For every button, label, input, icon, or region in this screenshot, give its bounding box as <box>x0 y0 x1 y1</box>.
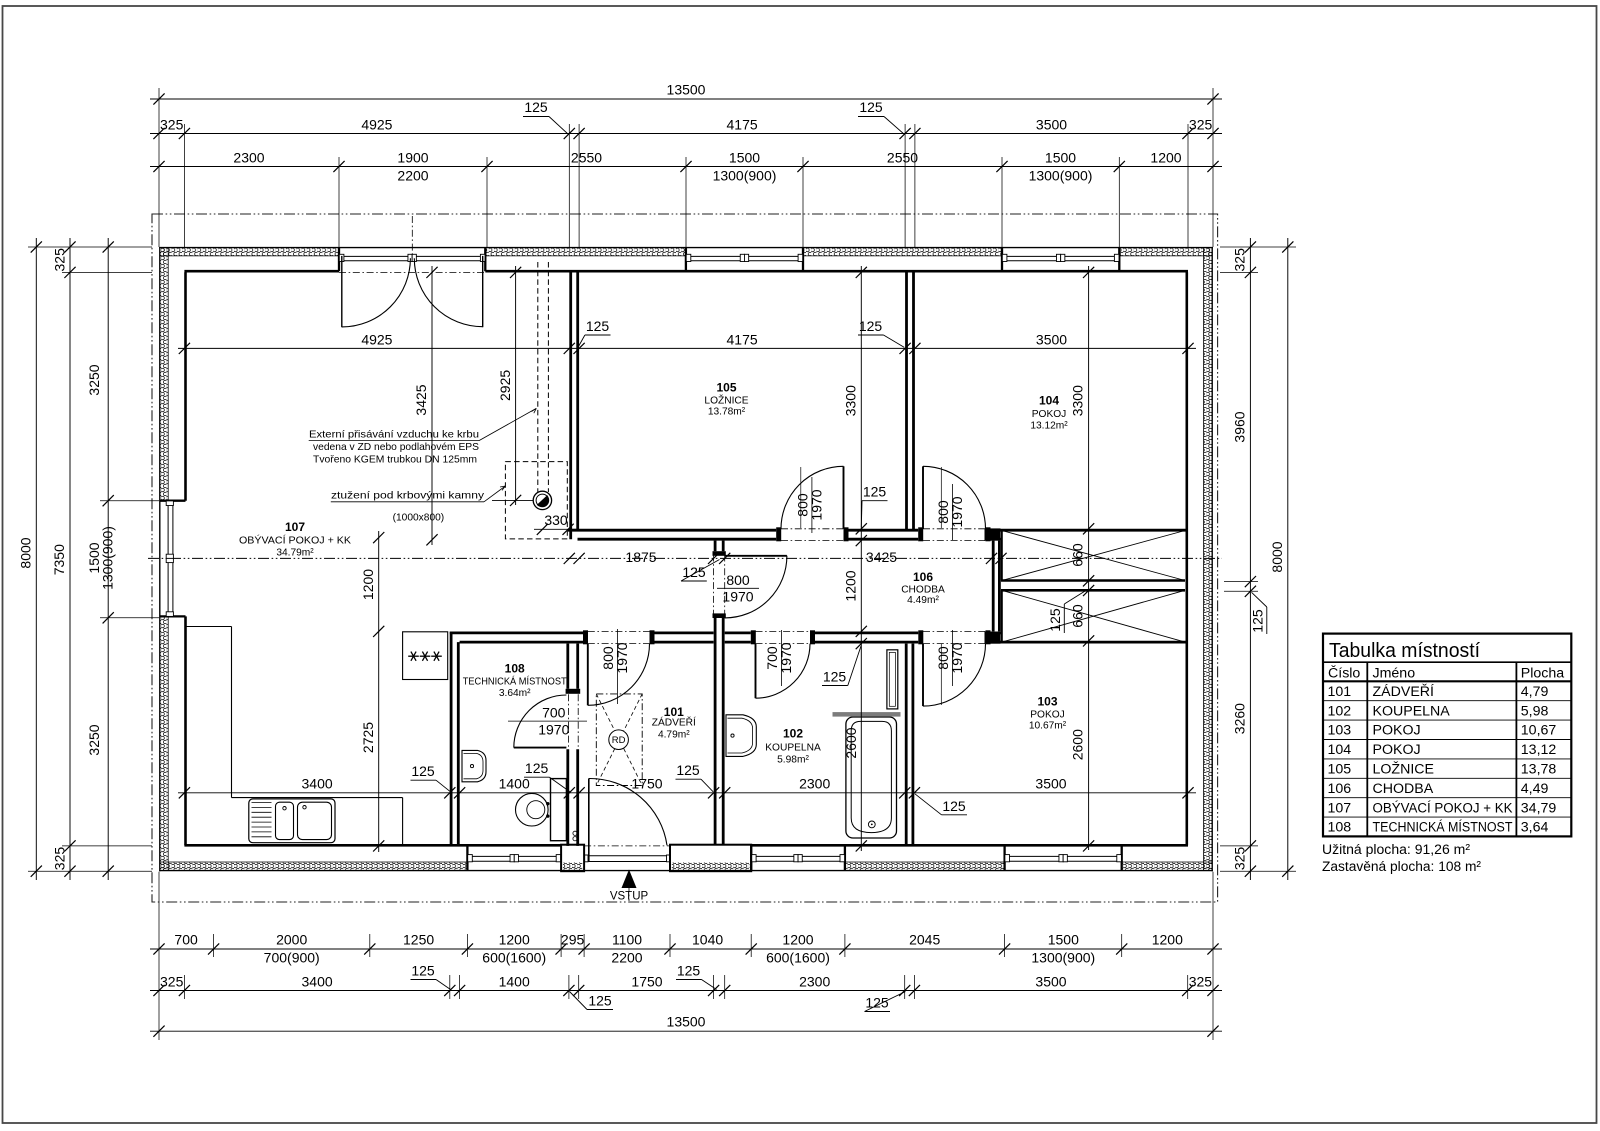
dimension interior 4925/125/4175/125/3500 <box>178 331 1196 354</box>
svg-text:108: 108 <box>505 662 525 676</box>
svg-text:1970: 1970 <box>778 642 794 673</box>
svg-text:1750: 1750 <box>631 776 662 792</box>
opening axis dashes door D105 <box>781 529 844 541</box>
svg-text:1970: 1970 <box>614 642 630 673</box>
window W4 room 102 bottom wall <box>752 855 845 862</box>
leader 125 axis <box>681 560 720 582</box>
svg-text:1400: 1400 <box>499 974 530 990</box>
svg-text:2725: 2725 <box>360 722 376 753</box>
door D105 <box>781 466 844 529</box>
dimension 3300 and 1200 and 2600 at x=861 <box>843 266 867 852</box>
svg-text:325: 325 <box>1231 847 1247 871</box>
svg-text:295: 295 <box>561 932 585 948</box>
svg-text:104: 104 <box>1039 394 1059 408</box>
wall stub between hall 101 and corridor 106 <box>715 541 723 552</box>
svg-text:1400: 1400 <box>499 776 530 792</box>
kitchen sink double bowl <box>249 799 335 843</box>
caps hall wall stub <box>713 551 726 618</box>
radiator bathroom <box>887 650 898 709</box>
wall: interior face bottom east part <box>751 844 1188 847</box>
annotation fireplace stiffening <box>331 486 506 524</box>
svg-text:1970: 1970 <box>722 589 753 605</box>
kitchen stove with hob asterisks <box>403 632 448 680</box>
svg-text:2925: 2925 <box>497 370 513 401</box>
svg-text:CHODBA: CHODBA <box>1373 781 1434 797</box>
room 108 label <box>463 662 567 700</box>
svg-text:106: 106 <box>1328 781 1352 797</box>
bathroom shelf gray bar <box>833 712 901 717</box>
svg-text:3300: 3300 <box>843 385 859 416</box>
wall between rooms 105/104 and corridor 106 <box>568 530 1188 539</box>
svg-text:104: 104 <box>1328 742 1352 758</box>
svg-text:2045: 2045 <box>909 932 940 948</box>
door D103 dims 800/1970 <box>935 630 965 705</box>
dimension left 325/7350/325 <box>51 238 76 880</box>
svg-text:102: 102 <box>783 727 803 741</box>
svg-text:Plocha: Plocha <box>1521 665 1564 681</box>
svg-text:POKOJ: POKOJ <box>1030 710 1065 721</box>
svg-text:1300(900): 1300(900) <box>99 526 115 590</box>
toilet WC room 108 <box>516 779 567 841</box>
wall hatch: top-mid segment <box>485 248 686 256</box>
svg-text:13,12: 13,12 <box>1521 742 1557 758</box>
svg-text:2300: 2300 <box>233 150 264 166</box>
wall: interior face bottom west part <box>184 844 561 847</box>
door D105 dims 800/1970 <box>795 467 825 533</box>
kitchen counter L-shape <box>186 627 403 846</box>
axis dimension 1875 and 3425 <box>564 549 1007 565</box>
wall between corridor/hall and south rooms <box>450 633 1188 642</box>
svg-text:3300: 3300 <box>1070 385 1086 416</box>
closet upper with X <box>1001 531 1185 581</box>
svg-text:10,67: 10,67 <box>1521 723 1557 739</box>
wall: exterior outer face top <box>159 247 1213 249</box>
window W6 left wall <box>166 501 173 616</box>
opening axis dashes door D101 <box>588 631 650 643</box>
svg-text:125: 125 <box>1047 608 1063 632</box>
bathtub room 102 <box>846 717 897 838</box>
svg-text:4175: 4175 <box>727 117 758 133</box>
door D101 dims 800/1970 <box>600 629 630 704</box>
washbasin room 108 <box>462 750 486 781</box>
svg-text:OBÝVACÍ POKOJ + KK: OBÝVACÍ POKOJ + KK <box>239 534 351 547</box>
dimension 2925 fireplace <box>492 266 533 506</box>
closet lower with X <box>1001 590 1185 642</box>
cap room 108 door <box>566 689 581 694</box>
leader 125 wall A at 861 <box>861 484 887 528</box>
svg-text:101: 101 <box>1328 684 1352 700</box>
fireplace dashed footprint <box>505 462 567 539</box>
witness lines bottom <box>159 872 1213 1040</box>
leader 125 interior at 450 <box>411 763 451 792</box>
svg-text:105: 105 <box>716 381 736 395</box>
door D101 <box>588 644 650 706</box>
svg-text:3250: 3250 <box>86 364 102 395</box>
wall between rooms 105 and 104 <box>907 272 914 529</box>
svg-text:125: 125 <box>1250 609 1266 633</box>
total usable area text <box>1322 842 1470 858</box>
svg-text:Tvořeno KGEM trubkou DN 12: Tvořeno KGEM trubkou DN 125mm <box>313 454 477 465</box>
svg-text:3500: 3500 <box>1036 331 1067 347</box>
svg-text:107: 107 <box>1328 800 1352 816</box>
svg-text:1300(900): 1300(900) <box>1031 950 1095 966</box>
svg-text:1200: 1200 <box>499 932 530 948</box>
dimension right 325/3960/125/3260/325 <box>1231 238 1256 880</box>
chimney symbol <box>533 491 551 509</box>
svg-text:7350: 7350 <box>51 544 67 575</box>
svg-text:3500: 3500 <box>1035 776 1066 792</box>
window W3 room 108 bottom wall <box>468 855 561 862</box>
svg-text:3260: 3260 <box>1231 703 1247 734</box>
room 103 label <box>1029 695 1067 732</box>
wall hatch: bottom-mid segment <box>845 862 1005 870</box>
svg-text:34.79m²: 34.79m² <box>276 548 314 559</box>
pier caps corridor right wall <box>985 528 1001 643</box>
wall hatch: right segment <box>1204 248 1212 870</box>
svg-text:3400: 3400 <box>302 776 333 792</box>
svg-text:4.49m²: 4.49m² <box>907 595 939 606</box>
leader 125 bottom at 450 <box>411 963 451 990</box>
svg-text:107: 107 <box>285 520 305 534</box>
small circles near door 101 <box>573 831 577 841</box>
svg-text:5,98: 5,98 <box>1521 703 1549 719</box>
room 107 label <box>239 520 351 559</box>
jamb lines door D107 <box>339 248 485 272</box>
svg-text:4.79m²: 4.79m² <box>658 730 690 741</box>
wall between bathroom 102 and room 103 <box>906 644 913 846</box>
dimension bottom row 325/3400/1400/1750/2300/3500/325 <box>150 974 1222 997</box>
opening axis dashes door D106 <box>714 555 725 618</box>
opening axis dashes door D103 <box>923 631 986 643</box>
main horizontal axis line <box>148 557 1222 559</box>
door D106 dims 800/1970 <box>717 572 759 605</box>
svg-text:125: 125 <box>588 993 612 1009</box>
door D104 <box>923 466 986 529</box>
svg-text:3,64: 3,64 <box>1521 820 1549 836</box>
svg-text:KOUPELNA: KOUPELNA <box>1373 703 1451 719</box>
svg-text:2600: 2600 <box>843 727 859 758</box>
door jamb caps on corridor top wall <box>776 527 990 541</box>
room 104 label <box>1030 394 1068 432</box>
opening axis dashes door D108 <box>569 694 579 749</box>
leader 125 bottom at 569 <box>570 992 614 1010</box>
leader 125 interior at 713 <box>676 762 714 792</box>
svg-text:1100: 1100 <box>612 932 642 948</box>
svg-text:125: 125 <box>411 963 435 979</box>
room 105 label <box>704 381 748 418</box>
door D104 dims 800/1970 <box>935 467 965 540</box>
svg-text:VSTUP: VSTUP <box>610 891 649 903</box>
svg-text:4,49: 4,49 <box>1521 781 1549 797</box>
svg-text:Zastavěná plocha: 108 m²: Zastavěná plocha: 108 m² <box>1322 859 1481 875</box>
wall between living room 107 and room 105 <box>571 272 578 539</box>
svg-text:3.64m²: 3.64m² <box>499 688 531 699</box>
french door D107 frame <box>339 254 485 261</box>
svg-text:325: 325 <box>51 847 67 871</box>
svg-text:700(900): 700(900) <box>264 950 320 966</box>
dimension right overall 8000 <box>1269 238 1294 880</box>
opening axis dash door D107 <box>339 271 485 273</box>
svg-text:TECHNICKÁ MÍSTNOST: TECHNICKÁ MÍSTNOST <box>463 675 567 688</box>
wall hatch: bottom-right segment <box>1122 862 1212 870</box>
dimension left overall 8000 <box>18 238 42 880</box>
wall: interior face top left of door <box>184 270 339 273</box>
door D102 <box>756 644 811 699</box>
leader 125 top right <box>858 99 905 135</box>
wall: interior face top right of door <box>485 270 1188 273</box>
witness lines left <box>28 247 159 871</box>
svg-text:2000: 2000 <box>276 932 307 948</box>
svg-text:106: 106 <box>913 570 933 584</box>
svg-text:330: 330 <box>544 512 568 528</box>
svg-text:125: 125 <box>682 564 706 580</box>
window W1 in room 105 top wall <box>686 254 802 261</box>
svg-text:125: 125 <box>823 669 847 685</box>
svg-text:125: 125 <box>942 798 966 814</box>
svg-text:125: 125 <box>676 762 700 778</box>
svg-text:600(1600): 600(1600) <box>482 950 546 966</box>
door D107 double french door leaves <box>342 256 483 327</box>
svg-text:LOŽNICE: LOŽNICE <box>1373 761 1435 778</box>
svg-text:125: 125 <box>859 318 883 334</box>
wall: interior face right <box>1186 272 1189 845</box>
svg-text:700: 700 <box>174 932 198 948</box>
svg-text:5.98m²: 5.98m² <box>777 755 809 766</box>
window W5 room 103 bottom wall <box>1005 855 1122 862</box>
svg-text:POKOJ: POKOJ <box>1032 409 1067 420</box>
wall between hall 101 and bathroom 102 <box>715 618 723 845</box>
svg-text:13500: 13500 <box>667 82 706 98</box>
svg-text:125: 125 <box>525 760 549 776</box>
svg-text:325: 325 <box>160 117 184 133</box>
leader 125 closet partition <box>1047 590 1088 634</box>
door D108 dims 700/1970 <box>508 705 587 738</box>
wall hatch: left upper segment <box>160 248 168 500</box>
svg-text:10.67m²: 10.67m² <box>1029 721 1067 732</box>
svg-text:125: 125 <box>411 763 435 779</box>
svg-text:RD: RD <box>612 735 626 746</box>
leader 125 right chain <box>1250 592 1267 634</box>
VSTUP entrance arrow <box>610 870 649 903</box>
svg-text:1970: 1970 <box>809 489 825 520</box>
chimney flue dashed lines <box>538 262 549 492</box>
svg-text:Externí přisávání vzduchu ke k: Externí přisávání vzduchu ke krbu <box>309 429 479 440</box>
annotation external air supply <box>309 408 537 465</box>
axis dash above door D107 <box>411 216 413 256</box>
svg-text:103: 103 <box>1328 723 1352 739</box>
svg-text:3425: 3425 <box>413 384 429 415</box>
svg-text:ztužení pod krbovými kamny: ztužení pod krbovými kamny <box>331 490 485 501</box>
svg-text:125: 125 <box>859 99 883 115</box>
window W2 in room 104 top wall <box>1002 254 1119 261</box>
svg-text:8000: 8000 <box>18 537 34 568</box>
svg-text:2550: 2550 <box>887 150 918 166</box>
svg-text:LOŽNICE: LOŽNICE <box>704 394 748 407</box>
leader 125 wall B at 861 <box>822 646 861 686</box>
wall hatch: top-right segment <box>1119 248 1211 256</box>
svg-text:2300: 2300 <box>799 776 830 792</box>
wall: exterior outer face left <box>159 247 161 871</box>
built-up area text <box>1322 859 1481 875</box>
leader 125 bottom at 717 <box>676 963 717 990</box>
svg-text:13,78: 13,78 <box>1521 762 1557 778</box>
dimension 330 fireplace <box>534 512 578 535</box>
svg-text:125: 125 <box>865 995 889 1011</box>
svg-text:KOUPELNA: KOUPELNA <box>765 743 821 754</box>
svg-text:125: 125 <box>677 963 701 979</box>
svg-text:Užitná plocha: 91,26 m²: Užitná plocha: 91,26 m² <box>1322 842 1470 858</box>
RD electrical board dashed box <box>596 694 642 786</box>
wall hatch: left lower segment <box>160 616 168 870</box>
svg-text:1200: 1200 <box>360 569 376 600</box>
wall: interior face left lower <box>184 616 187 845</box>
jamb lines window 102 <box>751 845 845 870</box>
svg-text:ZÁDVEŘÍ: ZÁDVEŘÍ <box>1373 683 1435 700</box>
svg-text:1500: 1500 <box>1045 150 1076 166</box>
svg-text:4925: 4925 <box>361 331 392 347</box>
svg-text:1200: 1200 <box>843 570 859 601</box>
svg-text:700: 700 <box>542 705 566 721</box>
svg-text:1300(900): 1300(900) <box>713 168 777 184</box>
svg-text:1200: 1200 <box>782 932 813 948</box>
svg-text:Jméno: Jméno <box>1373 665 1416 681</box>
wall hatch: top-left segment <box>161 248 340 256</box>
dimension 3425 living room <box>413 266 437 545</box>
dimension bottom overall 13500 <box>150 1014 1222 1037</box>
svg-text:1750: 1750 <box>631 974 662 990</box>
svg-text:325: 325 <box>51 248 67 272</box>
jamb lines window left wall <box>160 501 186 617</box>
svg-text:CHODBA: CHODBA <box>901 585 945 596</box>
svg-text:1200: 1200 <box>1152 932 1183 948</box>
washbasin bathroom 102 <box>726 715 756 757</box>
svg-text:TECHNICKÁ MÍSTNOST: TECHNICKÁ MÍSTNOST <box>1373 819 1513 836</box>
svg-text:325: 325 <box>160 974 184 990</box>
dimension 1200/2725 kitchen <box>360 531 384 852</box>
svg-text:13.78m²: 13.78m² <box>708 407 746 418</box>
room 106 label <box>901 570 945 606</box>
leader 125 interior right <box>858 318 904 347</box>
svg-text:13.12m²: 13.12m² <box>1030 421 1068 432</box>
site outline dash-dot boundary <box>152 214 1218 902</box>
svg-text:1970: 1970 <box>538 721 569 737</box>
svg-text:1040: 1040 <box>692 932 723 948</box>
svg-text:3400: 3400 <box>302 974 333 990</box>
svg-text:Číslo: Číslo <box>1328 664 1360 681</box>
svg-text:125: 125 <box>863 484 887 500</box>
svg-text:Tabulka místností: Tabulka místností <box>1329 639 1480 662</box>
opening axis dashes door D102 <box>756 631 811 643</box>
door D106 corridor to hall <box>725 556 787 618</box>
svg-text:103: 103 <box>1037 695 1057 709</box>
room 102 label <box>765 727 821 766</box>
witness lines top <box>159 88 1213 247</box>
svg-text:660: 660 <box>1070 604 1086 628</box>
svg-text:108: 108 <box>1328 820 1352 836</box>
svg-text:325: 325 <box>1189 974 1213 990</box>
svg-text:1970: 1970 <box>949 642 965 673</box>
svg-text:1875: 1875 <box>625 549 656 565</box>
svg-text:1300(900): 1300(900) <box>1029 168 1093 184</box>
svg-text:1200: 1200 <box>1150 150 1181 166</box>
svg-text:2600: 2600 <box>1070 729 1086 760</box>
wall corridor 106 right side <box>993 541 999 632</box>
svg-text:1500: 1500 <box>729 150 760 166</box>
svg-text:3425: 3425 <box>866 549 897 565</box>
svg-text:2200: 2200 <box>397 168 428 184</box>
svg-text:2300: 2300 <box>799 974 830 990</box>
svg-text:2200: 2200 <box>611 950 642 966</box>
svg-text:1970: 1970 <box>949 496 965 527</box>
svg-text:ZÁDVEŘÍ: ZÁDVEŘÍ <box>652 716 696 729</box>
svg-text:(1000x800): (1000x800) <box>393 513 445 524</box>
svg-text:4,79: 4,79 <box>1521 684 1549 700</box>
wall pier left of entrance <box>561 845 584 872</box>
svg-text:3500: 3500 <box>1035 974 1066 990</box>
svg-text:102: 102 <box>1328 703 1352 719</box>
svg-text:600(1600): 600(1600) <box>766 950 830 966</box>
svg-text:1900: 1900 <box>397 150 428 166</box>
svg-text:800: 800 <box>726 572 750 588</box>
svg-text:325: 325 <box>1231 248 1247 272</box>
svg-text:POKOJ: POKOJ <box>1373 723 1421 739</box>
svg-text:325: 325 <box>1189 117 1213 133</box>
wall: exterior outer face right <box>1211 247 1213 871</box>
svg-text:34,79: 34,79 <box>1521 800 1557 816</box>
dimension 3300/660/125/660/2600 at x=1088 <box>1070 266 1095 852</box>
room 101 label <box>652 705 696 741</box>
door D108 <box>514 695 567 748</box>
leader 125 interior left <box>578 318 611 347</box>
table Tabulka místností <box>1323 634 1571 837</box>
dimension bottom row 700/2000/1250/1200/295/1100/1040/1200/2045/1500/1200 <box>150 932 1222 966</box>
svg-text:1250: 1250 <box>403 932 434 948</box>
wall hatch: top segment right of window 105 <box>803 248 1002 256</box>
jamb lines window 108 <box>466 845 468 870</box>
jamb lines window 105 <box>686 248 803 272</box>
svg-text:105: 105 <box>1328 762 1352 778</box>
svg-text:2550: 2550 <box>571 150 602 166</box>
svg-text:3960: 3960 <box>1231 411 1247 442</box>
dimension left 3250/1500/3250 <box>86 238 115 880</box>
svg-text:660: 660 <box>1070 543 1086 567</box>
dimension top row 2300/1900/2550/1500/2550/1500/1200 <box>150 150 1222 184</box>
svg-text:1500: 1500 <box>1048 932 1079 948</box>
door jamb caps on corridor bottom wall <box>583 630 991 644</box>
svg-text:125: 125 <box>524 99 548 115</box>
dimension top overall 13500 <box>150 82 1222 105</box>
dimension top row 325/4925/125/4175/125/3500/325 <box>150 117 1222 140</box>
jamb lines window 104 <box>1002 248 1119 272</box>
leader 125 bottom at 905 <box>865 992 906 1012</box>
svg-text:13500: 13500 <box>667 1014 706 1030</box>
svg-text:3500: 3500 <box>1036 117 1067 133</box>
opening axis dashes door D104 <box>923 529 986 541</box>
svg-text:4925: 4925 <box>361 117 392 133</box>
wall: exterior outer face bottom <box>159 870 1213 872</box>
svg-text:OBÝVACÍ POKOJ + KK: OBÝVACÍ POKOJ + KK <box>1373 799 1513 816</box>
svg-text:125: 125 <box>586 318 610 334</box>
witness lines right <box>1220 247 1296 871</box>
jamb lines window 103 <box>1005 845 1122 870</box>
entrance threshold <box>585 855 670 862</box>
svg-text:vedena v ZD nebo podlahovém EP: vedena v ZD nebo podlahovém EPS <box>313 442 479 453</box>
leader 125 interior at 914 <box>915 794 967 815</box>
wall left of technical room 108 <box>451 632 458 846</box>
entrance door leaf and swing <box>589 778 667 861</box>
opening axis dash entrance <box>584 845 670 847</box>
svg-text:POKOJ: POKOJ <box>1373 742 1421 758</box>
